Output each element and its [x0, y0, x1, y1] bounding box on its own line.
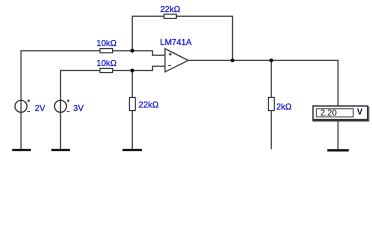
wire: V1 top lead up and right into input resistor network — [21, 51, 165, 106]
wire: voltmeter bottom to ground — [337, 121, 339, 149]
V2 polarity + mark — [67, 99, 70, 102]
wire: V2 bottom lead to ground — [60, 106, 62, 149]
svg-text:2.20: 2.20 — [320, 108, 337, 118]
voltage source V2 circle — [55, 100, 67, 112]
resistor 22k feedback body — [164, 14, 176, 18]
resistor 10k upper body — [100, 49, 113, 53]
wire: feedback loop from inverting-input node up over to output node — [132, 16, 232, 60]
op-amp non-inverting pin mark + — [169, 53, 172, 56]
ground symbol under V1 — [12, 149, 31, 151]
wire: 2k load resistor bottom to ground — [270, 110, 272, 149]
wire: V1 bottom lead to ground — [20, 106, 22, 149]
svg-text:V: V — [357, 106, 363, 116]
svg-text:LM741A: LM741A — [160, 37, 192, 47]
voltmeter display field — [316, 109, 353, 117]
ground symbol under voltmeter — [327, 149, 349, 151]
voltmeter case bottom shadow — [312, 120, 369, 122]
wire: node to 22k shunt resistor top — [131, 71, 133, 99]
wire: output node down to 2k load resistor — [270, 60, 272, 98]
junction: output to load branch — [269, 59, 273, 63]
V2 polarity - mark — [67, 111, 70, 113]
V1 polarity + mark — [27, 99, 30, 102]
op-amp U1 triangle — [165, 49, 188, 72]
ground symbol under 22k shunt — [123, 149, 143, 151]
svg-text:2V: 2V — [35, 103, 46, 113]
voltage source V1 circle — [15, 100, 27, 112]
svg-text:10kΩ: 10kΩ — [97, 38, 117, 48]
junction: inverting input node — [130, 69, 134, 73]
svg-text:22kΩ: 22kΩ — [160, 4, 180, 14]
resistor 10k lower body — [100, 68, 113, 72]
svg-text:3V: 3V — [73, 103, 84, 113]
wire: 22k shunt resistor bottom to ground — [131, 110, 133, 149]
wire: V2 top lead up and right into second input resistor — [61, 66, 166, 106]
svg-text:10kΩ: 10kΩ — [97, 58, 117, 68]
junction: feedback meets output — [231, 59, 235, 63]
ground symbol under V2 — [51, 149, 70, 151]
junction: non-inverting input node — [130, 49, 134, 53]
voltmeter case right shadow — [368, 107, 370, 122]
op-amp inverting pin mark - — [168, 65, 171, 67]
resistor 2k load body (vertical) — [268, 97, 274, 110]
wire: op-amp output across to voltmeter drop — [188, 60, 338, 105]
voltmeter M1 outer case — [313, 106, 368, 120]
svg-text:22kΩ: 22kΩ — [139, 100, 159, 110]
svg-text:2kΩ: 2kΩ — [276, 101, 291, 111]
V1 polarity - mark — [27, 111, 30, 113]
resistor 22k shunt body (vertical) — [129, 97, 135, 110]
